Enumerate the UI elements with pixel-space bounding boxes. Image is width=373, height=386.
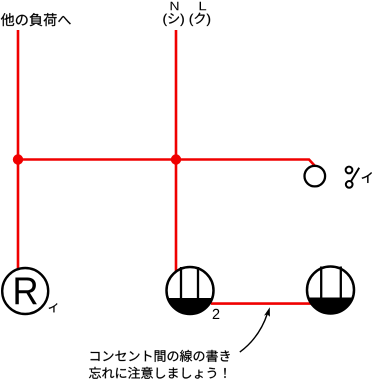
net label (シ) white wire xyxy=(163,13,183,26)
wire: between outlets xyxy=(211,302,311,305)
note line 2 xyxy=(89,367,226,379)
label: to other loads 他の負荷へ xyxy=(1,13,71,26)
outlet (double) right xyxy=(305,267,357,316)
junction dot left xyxy=(13,154,23,164)
label R xyxy=(15,278,37,305)
note line 1 xyxy=(91,350,230,362)
wire: left vertical to other loads xyxy=(17,30,20,270)
junction dot middle xyxy=(171,154,181,164)
outlet (double) middle xyxy=(165,267,215,316)
annotation arrow to wire xyxy=(240,307,270,352)
connection circle at switch xyxy=(305,166,326,187)
net label L (live) xyxy=(200,2,207,11)
label イ of lamp R xyxy=(49,303,58,312)
net label N (neutral) xyxy=(171,2,179,11)
wire: horizontal bus to switch circle xyxy=(18,160,315,167)
switch イ symbol xyxy=(346,167,360,188)
switch label イ xyxy=(362,172,372,183)
lamp receptacle R (イ) xyxy=(2,268,48,314)
wire: middle vertical from N xyxy=(175,30,178,271)
outlet count label 2 xyxy=(213,309,220,319)
net label (ク) black wire xyxy=(190,13,210,26)
